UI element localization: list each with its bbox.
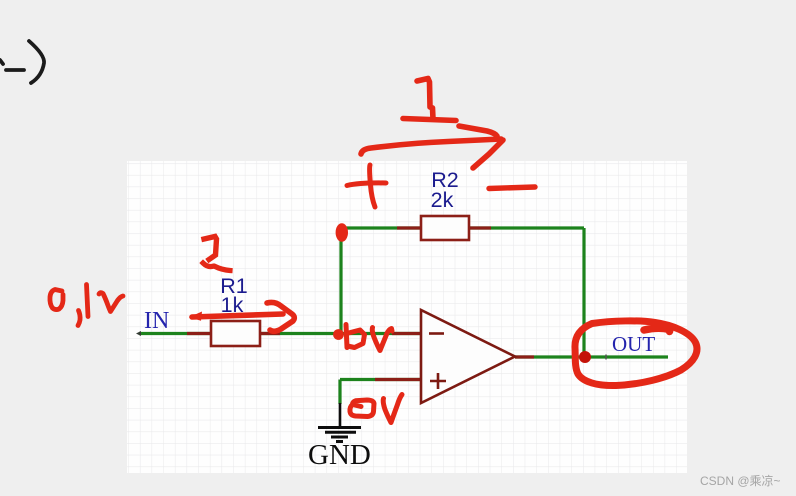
- schematic panel: [127, 161, 687, 473]
- annotation: strike-through arrow over 1k: [189, 302, 294, 331]
- annotation: handwritten 2 above R1: [204, 237, 217, 260]
- svg-text:IN: IN: [144, 308, 169, 334]
- annotation: long curvy arrow under 1: [361, 126, 503, 168]
- annotation: plus sign above feedback: [347, 165, 386, 207]
- wire output: [515, 355, 668, 358]
- svg-text:GND: GND: [308, 439, 371, 471]
- svg-text:2k: 2k: [431, 188, 454, 212]
- ground: [318, 403, 361, 442]
- pin op-amp output: [515, 355, 534, 358]
- svg-text:CSDN @乘凉~: CSDN @乘凉~: [700, 473, 781, 488]
- node OUT junction dot: [579, 351, 591, 363]
- wire feedback top horizontal: [341, 226, 584, 229]
- annotation: 0,1V left: [50, 285, 123, 326]
- annotation: bV at inverting node: [346, 325, 392, 351]
- pin op-amp non-inverting input: [375, 378, 421, 381]
- svg-text:OUT: OUT: [612, 332, 655, 356]
- pin op-amp inverting input: [392, 332, 421, 335]
- annotation: red loop around OUT: [575, 321, 697, 386]
- op-amp U1: [421, 310, 515, 403]
- wire non-inverting input: [340, 380, 421, 405]
- pin R1 left: [187, 332, 211, 335]
- wire feedback vertical from junction: [339, 228, 342, 334]
- resistor R2: [421, 216, 469, 240]
- annotation: red dot at inverting node: [333, 329, 344, 340]
- annotation: black bracket top-left: [0, 41, 44, 83]
- resistor R1: [211, 321, 260, 346]
- wire IN net: input to inverting pin: [139, 332, 421, 335]
- pin R2 right: [469, 226, 491, 229]
- op-amp plus sign: [430, 373, 446, 389]
- annotation: minus sign right of R2: [489, 187, 535, 189]
- wire tick on OUT net: [605, 355, 607, 360]
- annotation: 0V at non-inverting input: [350, 395, 402, 423]
- pin R1 right: [260, 332, 280, 335]
- wire end marker IN: [136, 331, 141, 336]
- annotation: handwritten 1 with underline: [403, 79, 456, 121]
- annotation: red blob at feedback corner: [336, 223, 348, 242]
- wire feedback right vertical to output: [582, 228, 585, 357]
- op-amp minus sign: [429, 332, 444, 335]
- pin R2 left: [397, 226, 421, 229]
